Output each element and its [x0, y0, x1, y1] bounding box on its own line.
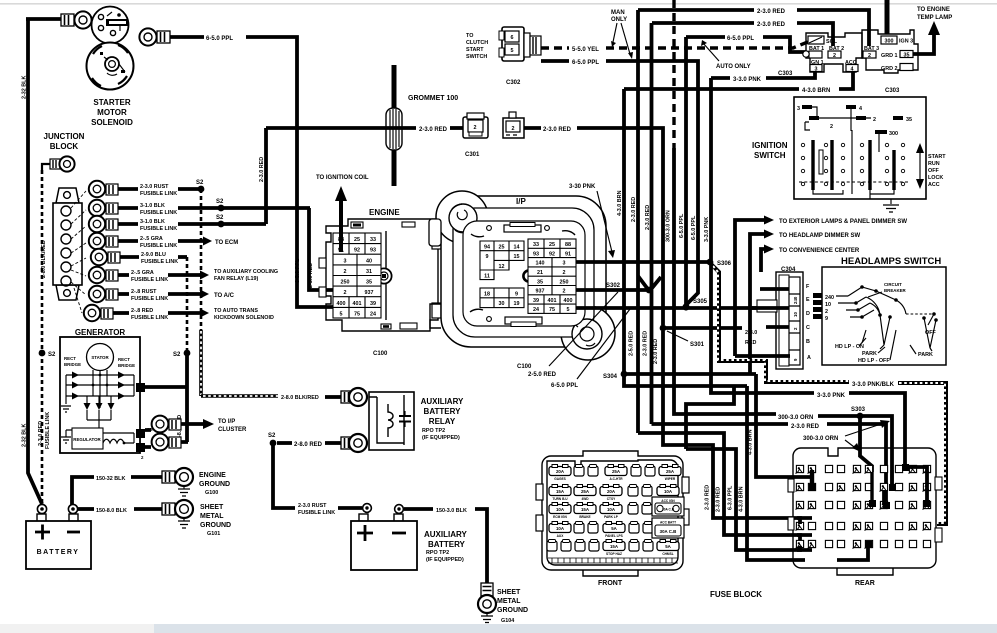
I/P pin grid upper left	[480, 241, 524, 280]
svg-text:25: 25	[499, 245, 505, 251]
splice S2 row2	[216, 199, 224, 211]
I/P center screw	[523, 270, 534, 281]
svg-text:5A: 5A	[611, 526, 617, 531]
svg-text:3: 3	[563, 261, 566, 267]
svg-text:10: 10	[793, 312, 798, 317]
fusible link terminal row 5	[91, 249, 187, 265]
svg-text:75: 75	[549, 307, 555, 313]
svg-text:OFF: OFF	[928, 168, 939, 174]
svg-text:ACC: ACC	[928, 182, 940, 188]
wire 2-5.0 RED to fuse block rear	[638, 433, 812, 535]
fusible link terminal row 7 TO A/C	[89, 286, 235, 302]
rear block pin grid	[796, 465, 931, 548]
wire 4-3.0 BRN dimmer riser lower	[748, 374, 811, 477]
svg-text:2-.5 GRA: 2-.5 GRA	[140, 236, 163, 242]
junction block caption	[44, 132, 85, 151]
svg-text:JUNCTION: JUNCTION	[44, 132, 85, 141]
auxiliary battery caption	[424, 530, 467, 563]
svg-text:2-3.0 RUST: 2-3.0 RUST	[298, 503, 327, 509]
svg-text:3-1.0 BLK: 3-1.0 BLK	[140, 203, 165, 209]
connector C301 left half	[463, 113, 488, 158]
wire 2-3.0 RED C301 left	[266, 127, 463, 133]
svg-text:SHEET: SHEET	[200, 504, 224, 511]
svg-text:92: 92	[354, 248, 360, 254]
wire 5-5.0 YEL dashed	[541, 41, 810, 53]
svg-text:GROMMET 100: GROMMET 100	[408, 95, 458, 102]
svg-text:S303: S303	[851, 407, 866, 413]
svg-text:2-3.0 RED: 2-3.0 RED	[757, 9, 786, 15]
svg-text:19: 19	[514, 301, 520, 307]
svg-text:2-3.0 RED: 2-3.0 RED	[705, 485, 711, 510]
svg-text:5: 5	[567, 307, 570, 313]
bottom bar left	[0, 624, 154, 633]
svg-text:2: 2	[344, 269, 347, 275]
svg-text:2-8.0 BLK/RED: 2-8.0 BLK/RED	[281, 395, 319, 401]
battery post negative feed	[68, 504, 77, 513]
svg-text:2-3.0 RED: 2-3.0 RED	[643, 331, 649, 356]
svg-text:3: 3	[797, 106, 800, 112]
svg-text:PARK LP: PARK LP	[604, 515, 619, 519]
svg-text:FUSE BLOCK: FUSE BLOCK	[710, 590, 762, 599]
svg-text:CIRCUIT: CIRCUIT	[884, 282, 902, 287]
svg-text:2: 2	[873, 117, 876, 123]
svg-text:2-9.0 BLU: 2-9.0 BLU	[141, 252, 166, 258]
svg-text:400: 400	[337, 301, 346, 307]
svg-text:GRD 2: GRD 2	[881, 66, 897, 72]
I/P pin grid lower left	[480, 288, 524, 308]
engine connector C100 pin grid	[333, 233, 381, 318]
caption 300-3.0 ORN leaders	[803, 420, 890, 452]
svg-text:2-.5 GRA: 2-.5 GRA	[131, 270, 154, 276]
svg-text:2-8.0 BLK/RED: 2-8.0 BLK/RED	[41, 240, 47, 278]
fusible link terminal row 8 TO AUTO TRANS	[84, 305, 274, 321]
generator	[60, 337, 153, 460]
ignition switch caption	[752, 141, 788, 160]
svg-text:6-5.0 PPL: 6-5.0 PPL	[295, 258, 301, 283]
wire 2-3.0 RED S301 to fuse block rear	[663, 331, 812, 518]
svg-text:91: 91	[565, 251, 571, 257]
wire to exterior lamps arrow	[735, 216, 907, 357]
svg-text:10A: 10A	[556, 526, 565, 531]
svg-text:TO ECM: TO ECM	[215, 240, 238, 246]
ring terminal engine ground G100	[162, 468, 193, 486]
svg-text:2-3.0 RED: 2-3.0 RED	[653, 339, 659, 364]
svg-text:RUN: RUN	[928, 161, 940, 167]
svg-text:24: 24	[533, 307, 539, 313]
wire 2-8.0 BLK/RED to aux relay	[201, 395, 341, 401]
svg-text:BATTERY: BATTERY	[37, 549, 80, 556]
svg-text:3-30 PNK: 3-30 PNK	[569, 184, 596, 190]
splice S2 aux battery	[268, 433, 341, 448]
wire 2-3.0 RED long run to fuse block	[652, 424, 887, 503]
svg-text:WIPER: WIPER	[665, 477, 676, 481]
wire 3-3.0 PNK to ignition	[711, 70, 815, 260]
svg-text:HD LP - OFF: HD LP - OFF	[858, 358, 890, 364]
svg-text:MAN: MAN	[611, 10, 625, 16]
svg-text:2-5.0 RED: 2-5.0 RED	[528, 372, 557, 378]
svg-text:IGN 3: IGN 3	[899, 39, 913, 45]
splice S2 row1	[196, 180, 204, 192]
svg-text:150-32 BLK: 150-32 BLK	[96, 476, 125, 482]
svg-text:937: 937	[536, 289, 545, 295]
svg-text:2: 2	[563, 270, 566, 276]
fuse pills front block	[547, 465, 684, 557]
auxiliary battery relay	[369, 392, 414, 450]
svg-text:AUTO ONLY: AUTO ONLY	[716, 64, 751, 70]
svg-text:PARK: PARK	[862, 351, 877, 357]
splice S301	[653, 325, 705, 364]
svg-text:RECT: RECT	[118, 357, 130, 362]
svg-text:9: 9	[825, 316, 828, 322]
svg-text:88: 88	[565, 242, 571, 248]
wire 4-3.0 BRN S304 to dimmer riser	[624, 372, 756, 376]
fuse block front housing	[536, 451, 689, 576]
svg-text:2-32 BLK: 2-32 BLK	[22, 424, 28, 447]
svg-text:35: 35	[904, 53, 910, 59]
svg-text:4-3.0 BRN: 4-3.0 BRN	[739, 486, 745, 512]
svg-text:STARTER: STARTER	[93, 98, 130, 107]
svg-text:CTSY: CTSY	[607, 497, 616, 501]
svg-text:S301: S301	[690, 342, 705, 348]
svg-text:15A: 15A	[556, 489, 565, 494]
wire 2-8.0 BLK/RED dashed to battery	[38, 170, 51, 503]
svg-text:RECT: RECT	[64, 356, 76, 361]
svg-text:25A: 25A	[612, 469, 621, 474]
svg-text:2-8.0 RED: 2-8.0 RED	[294, 442, 323, 448]
svg-text:10A: 10A	[556, 507, 565, 512]
svg-text:24: 24	[370, 311, 376, 317]
wire C304 pin E	[760, 287, 789, 291]
svg-text:33: 33	[370, 237, 376, 243]
svg-text:GROUND: GROUND	[200, 522, 231, 529]
svg-text:14: 14	[514, 245, 520, 251]
svg-text:GENERATOR: GENERATOR	[75, 328, 126, 337]
svg-text:2: 2	[868, 53, 871, 59]
battery	[26, 514, 91, 569]
connector C302	[499, 27, 541, 86]
caption 3-30 PNK with leader	[569, 184, 615, 258]
svg-text:2-.8 RED: 2-.8 RED	[131, 308, 153, 314]
connector C304	[757, 267, 811, 369]
svg-text:REAR: REAR	[855, 580, 875, 587]
svg-text:FUSIBLE LINK: FUSIBLE LINK	[140, 210, 177, 216]
svg-text:E: E	[806, 297, 810, 303]
wire 4-3.0 BRN to fuse block rear bottom	[739, 386, 806, 560]
svg-text:C: C	[806, 325, 810, 331]
splice S303	[851, 407, 872, 472]
svg-text:2-.8 RUST: 2-.8 RUST	[131, 289, 157, 295]
splice S306	[707, 259, 732, 267]
svg-text:150-8.0 BLK: 150-8.0 BLK	[96, 508, 127, 514]
svg-text:TO AUXILIARY COOLING: TO AUXILIARY COOLING	[214, 269, 278, 275]
svg-text:A.C-HTR: A.C-HTR	[609, 477, 623, 481]
ring terminal 6-5.0 PPL from solenoid	[139, 28, 170, 45]
svg-text:S305: S305	[693, 299, 708, 305]
splice S305	[682, 299, 707, 311]
svg-text:ACC BATT: ACC BATT	[660, 521, 676, 525]
ground symbol G104	[481, 589, 528, 624]
wire to convenience center arrow	[761, 245, 860, 273]
svg-text:10A: 10A	[664, 489, 673, 494]
svg-text:2: 2	[344, 290, 347, 296]
ring terminal sheet metal ground G104	[478, 583, 496, 613]
svg-text:11: 11	[484, 273, 490, 279]
svg-text:AUX: AUX	[557, 534, 565, 538]
svg-text:2-5.0 RED: 2-5.0 RED	[308, 263, 314, 288]
splice S2 generator right	[173, 350, 190, 358]
svg-text:5: 5	[340, 311, 343, 317]
wire 2-3.0 RED riser to C301	[259, 128, 266, 224]
svg-text:(IF EQUIPPED): (IF EQUIPPED)	[426, 557, 464, 563]
ground symbol G100	[178, 472, 230, 496]
svg-text:93: 93	[370, 248, 376, 254]
svg-text:I/P: I/P	[516, 197, 526, 206]
svg-text:RPO TP2: RPO TP2	[422, 428, 445, 434]
wire C304 pin A	[735, 354, 790, 358]
svg-text:240: 240	[793, 296, 798, 304]
svg-text:10: 10	[825, 302, 831, 308]
svg-text:5-5.0 YEL: 5-5.0 YEL	[572, 47, 599, 53]
wire 3-3.0 PNK/BLK striped	[711, 264, 946, 524]
wire generator to S2 riser	[145, 385, 187, 389]
svg-text:15A: 15A	[581, 507, 590, 512]
wire 4-3.0 BRN from ACC	[624, 70, 853, 372]
bottom bar right	[154, 624, 997, 633]
svg-text:4-3.0 BRN: 4-3.0 BRN	[748, 429, 754, 455]
svg-text:SWITCH: SWITCH	[466, 54, 487, 60]
svg-text:SOL: SOL	[826, 39, 838, 45]
ground symbol G101	[178, 504, 231, 537]
svg-text:6-5.0 PPL: 6-5.0 PPL	[206, 36, 233, 42]
svg-text:START: START	[466, 47, 484, 53]
connector C301 right half	[503, 112, 524, 138]
svg-text:TURN B.U: TURN B.U	[552, 497, 568, 501]
svg-text:AUXILIARY: AUXILIARY	[421, 397, 464, 406]
ring terminal junction block feed	[42, 156, 75, 171]
svg-text:FUSIBLE LINK: FUSIBLE LINK	[131, 277, 168, 283]
svg-text:140: 140	[536, 261, 545, 267]
svg-text:35: 35	[366, 280, 372, 286]
svg-text:GROUND: GROUND	[497, 607, 528, 614]
svg-text:FUSIBLE LINK: FUSIBLE LINK	[45, 412, 51, 449]
ignition switch	[794, 97, 926, 199]
svg-text:TO: TO	[466, 33, 473, 39]
caption start run off lock acc	[916, 143, 946, 189]
wire I/P row3 to S306	[576, 260, 708, 264]
svg-text:4: 4	[859, 106, 862, 112]
svg-text:3: 3	[344, 258, 347, 264]
svg-text:IGNITION: IGNITION	[752, 141, 788, 150]
svg-text:TEMP LAMP: TEMP LAMP	[917, 15, 952, 21]
ring terminal sheet metal ground G101	[162, 500, 193, 518]
svg-text:A: A	[807, 355, 811, 361]
svg-text:TO HEADLAMP DIMMER SW: TO HEADLAMP DIMMER SW	[779, 233, 860, 239]
svg-text:GRD 1: GRD 1	[881, 53, 897, 59]
connector C303 body side	[862, 30, 918, 94]
svg-text:2: 2	[830, 124, 833, 130]
splice S302	[606, 276, 661, 293]
svg-text:4-3.0 BRN: 4-3.0 BRN	[802, 88, 830, 94]
svg-text:300-3.0 ORN: 300-3.0 ORN	[778, 415, 813, 421]
aux battery post positive	[363, 504, 372, 513]
svg-text:2: 2	[833, 53, 836, 59]
svg-text:ENGINE: ENGINE	[199, 472, 226, 479]
svg-text:S306: S306	[717, 261, 732, 267]
svg-text:RPO TP2: RPO TP2	[426, 550, 449, 556]
svg-text:2-3.0 RED: 2-3.0 RED	[543, 127, 572, 133]
caption man only	[611, 10, 633, 59]
wire to ring terminal at solenoid	[26, 17, 62, 21]
svg-text:2-3.0 RED: 2-3.0 RED	[791, 424, 820, 430]
svg-text:BREAKER: BREAKER	[884, 288, 907, 293]
starter motor solenoid caption	[91, 98, 133, 127]
svg-text:2-3.0 RED: 2-3.0 RED	[631, 197, 637, 222]
I/P connector body	[429, 191, 615, 360]
svg-text:15A: 15A	[610, 544, 619, 549]
svg-text:2: 2	[825, 309, 828, 315]
svg-text:G100: G100	[205, 490, 218, 496]
caption to clutch start switch	[466, 33, 488, 60]
svg-text:15: 15	[514, 254, 520, 260]
svg-text:CLUSTER: CLUSTER	[218, 427, 247, 433]
svg-text:REGULATOR: REGULATOR	[73, 437, 101, 442]
wire stub pin A join	[686, 386, 734, 449]
svg-text:2-3.0 RED: 2-3.0 RED	[716, 487, 722, 512]
leader lines C100 labels	[517, 292, 630, 389]
svg-text:ONLY: ONLY	[611, 17, 627, 23]
svg-text:6-5.0 PPL: 6-5.0 PPL	[691, 215, 697, 240]
svg-text:25A: 25A	[666, 469, 675, 474]
svg-text:C301: C301	[465, 152, 480, 158]
svg-text:250: 250	[560, 279, 569, 285]
svg-text:94: 94	[484, 245, 490, 251]
wire 6-3.0 PPL to fuse block rear	[686, 449, 812, 550]
svg-text:35: 35	[537, 279, 543, 285]
svg-text:GAGES: GAGES	[554, 477, 566, 481]
fusible link terminal row 6 TO AUX FAN	[89, 267, 278, 283]
wire 2-32 BLK battery feed	[22, 19, 43, 504]
svg-text:B: B	[806, 339, 810, 345]
splice S2 row3	[216, 215, 224, 227]
svg-text:FUSIBLE LINK: FUSIBLE LINK	[140, 191, 177, 197]
svg-text:6-3.0 PPL: 6-3.0 PPL	[728, 485, 734, 510]
svg-text:9: 9	[515, 292, 518, 298]
svg-text:ACC IGN: ACC IGN	[661, 499, 675, 503]
svg-text:2: 2	[474, 125, 477, 131]
svg-text:TO IGNITION COIL: TO IGNITION COIL	[316, 175, 369, 181]
I/P pin grid right	[528, 239, 576, 313]
svg-text:250: 250	[341, 280, 350, 286]
top hairline	[0, 3, 997, 5]
svg-text:GROUND: GROUND	[199, 481, 230, 488]
svg-text:CLUTCH: CLUTCH	[466, 40, 488, 46]
svg-text:3-3.0 PNK/BLK: 3-3.0 PNK/BLK	[852, 382, 895, 388]
svg-text:4-3.0 BRN: 4-3.0 BRN	[617, 190, 623, 216]
svg-text:FAN RELAY (L19): FAN RELAY (L19)	[214, 276, 259, 282]
wire to engine temp lamp	[913, 7, 952, 54]
wire C304 pin D overlay	[750, 306, 789, 310]
wire 2-3.0 RUST aux battery	[273, 443, 362, 516]
svg-text:2-3.0 RED: 2-3.0 RED	[38, 421, 44, 446]
svg-text:937: 937	[365, 290, 374, 296]
ring terminal generator battery lead	[145, 434, 188, 451]
svg-text:4WD: 4WD	[581, 497, 589, 501]
svg-text:TO ENGINE: TO ENGINE	[917, 7, 950, 13]
svg-text:401: 401	[548, 298, 557, 304]
wire 300-3.0 ORN bus	[674, 0, 892, 490]
svg-text:PARK: PARK	[918, 352, 933, 358]
svg-text:21: 21	[537, 270, 543, 276]
svg-text:40: 40	[366, 258, 372, 264]
svg-text:ENGINE: ENGINE	[369, 208, 400, 217]
svg-text:G104: G104	[501, 618, 514, 624]
svg-text:300: 300	[889, 131, 898, 137]
wire 3-3.0 PNK to fuse block	[711, 262, 905, 468]
svg-text:C303: C303	[885, 88, 900, 94]
svg-text:C100: C100	[373, 351, 388, 357]
svg-text:BLOCK: BLOCK	[50, 142, 79, 151]
auxiliary battery	[351, 514, 417, 570]
svg-text:S2: S2	[196, 180, 204, 186]
wire 2-5.0 RED to engine connector	[308, 208, 333, 290]
svg-text:CHMSL: CHMSL	[662, 552, 673, 556]
aux battery post negative	[395, 505, 404, 514]
svg-text:93: 93	[533, 251, 539, 257]
svg-text:S304: S304	[603, 374, 618, 380]
svg-text:31: 31	[366, 269, 372, 275]
svg-text:2: 2	[563, 289, 566, 295]
svg-text:2-3.0 RED: 2-3.0 RED	[419, 127, 448, 133]
svg-text:25: 25	[354, 237, 360, 243]
ring terminal starter feed	[61, 11, 92, 28]
headlamps switch	[813, 267, 946, 365]
svg-text:2-32 BLK: 2-32 BLK	[22, 76, 28, 99]
splice S2 generator left	[39, 350, 56, 358]
starter motor solenoid	[87, 7, 134, 90]
svg-text:BRIDGE: BRIDGE	[64, 362, 81, 367]
svg-text:30A C.B: 30A C.B	[662, 507, 675, 511]
svg-text:35: 35	[906, 117, 912, 123]
wire 150-3.0 BLK to G104	[404, 508, 487, 583]
svg-text:TO CONVENIENCE CENTER: TO CONVENIENCE CENTER	[779, 248, 860, 254]
svg-text:FUSIBLE LINK: FUSIBLE LINK	[298, 510, 335, 516]
splice S304	[603, 371, 627, 380]
svg-text:TO EXTERIOR LAMPS & PANEL DIMM: TO EXTERIOR LAMPS & PANEL DIMMER SW	[779, 219, 907, 225]
svg-text:SOLENOID: SOLENOID	[91, 118, 133, 127]
svg-text:150-3.0 BLK: 150-3.0 BLK	[436, 508, 467, 514]
svg-text:S2: S2	[216, 215, 224, 221]
engine connector C100	[319, 219, 441, 331]
svg-text:20A: 20A	[556, 469, 565, 474]
svg-text:6-5.0 PPL: 6-5.0 PPL	[551, 383, 578, 389]
svg-text:BRIDGE: BRIDGE	[118, 363, 135, 368]
svg-text:3-3.0 PNK: 3-3.0 PNK	[704, 217, 710, 242]
svg-text:2-5.0 RED: 2-5.0 RED	[629, 331, 635, 356]
dashed leaders junction block to terminals	[71, 191, 86, 313]
svg-text:C303: C303	[778, 71, 793, 77]
svg-text:3-1.0 BLK: 3-1.0 BLK	[140, 219, 165, 225]
ignition switch ground	[883, 199, 899, 212]
svg-text:6-5.0 PPL: 6-5.0 PPL	[679, 213, 685, 238]
svg-text:401: 401	[353, 301, 362, 307]
wire S301 to C304 pin C	[663, 327, 789, 346]
svg-text:HEADLAMPS SWITCH: HEADLAMPS SWITCH	[841, 256, 941, 267]
svg-text:2-3.0 RED: 2-3.0 RED	[259, 157, 265, 182]
svg-text:75: 75	[354, 311, 360, 317]
svg-text:SWITCH: SWITCH	[754, 151, 786, 160]
svg-text:6-5.0 PPL: 6-5.0 PPL	[572, 60, 599, 66]
wire 150-32 BLK engine ground	[72, 476, 162, 507]
